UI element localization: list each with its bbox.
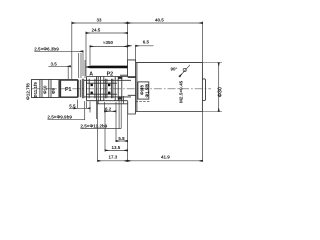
svg-text:33: 33: [97, 18, 103, 23]
rear boss: [202, 79, 205, 101]
callout 6.3 leader: [34, 50, 83, 52]
leader circle: [183, 68, 186, 71]
svg-text:2.5×Φ11.2b9: 2.5×Φ11.2b9: [80, 124, 107, 129]
ext line x86 (24.5): [85, 32, 87, 77]
svg-text:2.5×Φ9.9b9: 2.5×Φ9.9b9: [47, 115, 72, 120]
svg-text:Φ9: Φ9: [51, 87, 56, 94]
gearbox housing: [87, 77, 136, 101]
ext line x71.8: [71, 22, 73, 80]
dimension texts: [26, 18, 224, 160]
retaining ring (filled): [58, 80, 60, 97]
callout 9.9 leader: [48, 101, 85, 120]
svg-text:Φ1.5f8: Φ1.5f8: [144, 83, 149, 97]
bearing A balls: [91, 84, 93, 86]
bearing P1 box: [61, 80, 78, 97]
bottom mounting lug: [128, 101, 136, 114]
hidden line under pinion box: [136, 100, 150, 102]
ext line x127.5 top->bottom: [127, 22, 129, 162]
svg-text:6.2: 6.2: [105, 106, 112, 111]
svg-text:41.9: 41.9: [161, 154, 170, 159]
shaft through housing: [84, 80, 131, 97]
housing inner race lines: [87, 83, 118, 94]
bearing P2 cage: [107, 79, 112, 98]
svg-text:M2.5×0.45: M2.5×0.45: [178, 80, 183, 103]
dimension/extension lines: [34, 22, 222, 162]
dim 5.8: [116, 140, 128, 142]
svg-text:3.5: 3.5: [51, 61, 58, 66]
dim 6.5: [136, 45, 154, 47]
ext line x90 wire: [89, 46, 91, 65]
dim 6.2: [105, 110, 117, 112]
shaft step line 1: [40, 80, 42, 98]
bearing A cage: [89, 79, 95, 98]
svg-text:90°: 90°: [171, 67, 178, 72]
dim 3.5: [48, 65, 70, 67]
top wire boss: [128, 60, 136, 77]
svg-text:P1: P1: [65, 87, 72, 93]
svg-text:Φ10: Φ10: [42, 85, 47, 94]
svg-text:5.8: 5.8: [118, 136, 125, 141]
svg-text:Φ11.1f9: Φ11.1f9: [33, 82, 38, 98]
dim 24.5 line: [86, 32, 128, 34]
bearing P2 balls: [108, 84, 110, 86]
dim 17.3: [98, 160, 128, 162]
motor face lip lines: [120, 75, 136, 95]
housing step: [98, 77, 100, 101]
svg-text:24.5: 24.5: [92, 27, 101, 32]
motor front face inner line: [136, 63, 138, 112]
centerline: [32, 88, 212, 90]
svg-text:17.3: 17.3: [109, 154, 118, 159]
svg-text:40.5: 40.5: [155, 18, 164, 23]
shaft step line 2: [49, 80, 51, 98]
svg-text:2.5×Φ6.3b9: 2.5×Φ6.3b9: [34, 46, 59, 51]
ext line x202.5: [202, 22, 204, 162]
svg-text:6.5: 6.5: [143, 39, 150, 44]
dim 40.5 line: [128, 22, 203, 24]
dim 13.5: [105, 149, 128, 151]
dim phi30: [218, 63, 220, 112]
svg-text:A: A: [89, 71, 93, 77]
lead wire bundle: [85, 66, 128, 69]
ext bearing A right: [96, 101, 98, 119]
bearing A faces: [87, 77, 97, 101]
ext lines for grooves: [79, 51, 85, 78]
dim 41.9: [128, 160, 203, 162]
svg-text:≈350: ≈350: [103, 40, 113, 45]
90 deg leader: [180, 65, 191, 77]
svg-text:5.5: 5.5: [69, 103, 76, 108]
dim 33 line: [72, 22, 128, 24]
svg-text:Φ12.7f8: Φ12.7f8: [26, 83, 31, 100]
bearing P2 faces: [104, 77, 115, 101]
motor body: [135, 63, 202, 112]
motor pinion detail box: [138, 82, 149, 99]
step lines right of P1: [79, 79, 84, 98]
callout 11.2 leader: [81, 96, 122, 129]
gear carrier box: [118, 77, 122, 101]
svg-text:Φ30: Φ30: [217, 87, 223, 97]
svg-text:13.5: 13.5: [112, 145, 121, 150]
ext line x135.6: [135, 46, 137, 60]
dim 5.5: [69, 107, 90, 109]
housing foot step: [97, 96, 128, 104]
shaft outline: [32, 80, 78, 98]
svg-text:P2: P2: [107, 71, 114, 77]
dim 350 line: [90, 45, 128, 47]
